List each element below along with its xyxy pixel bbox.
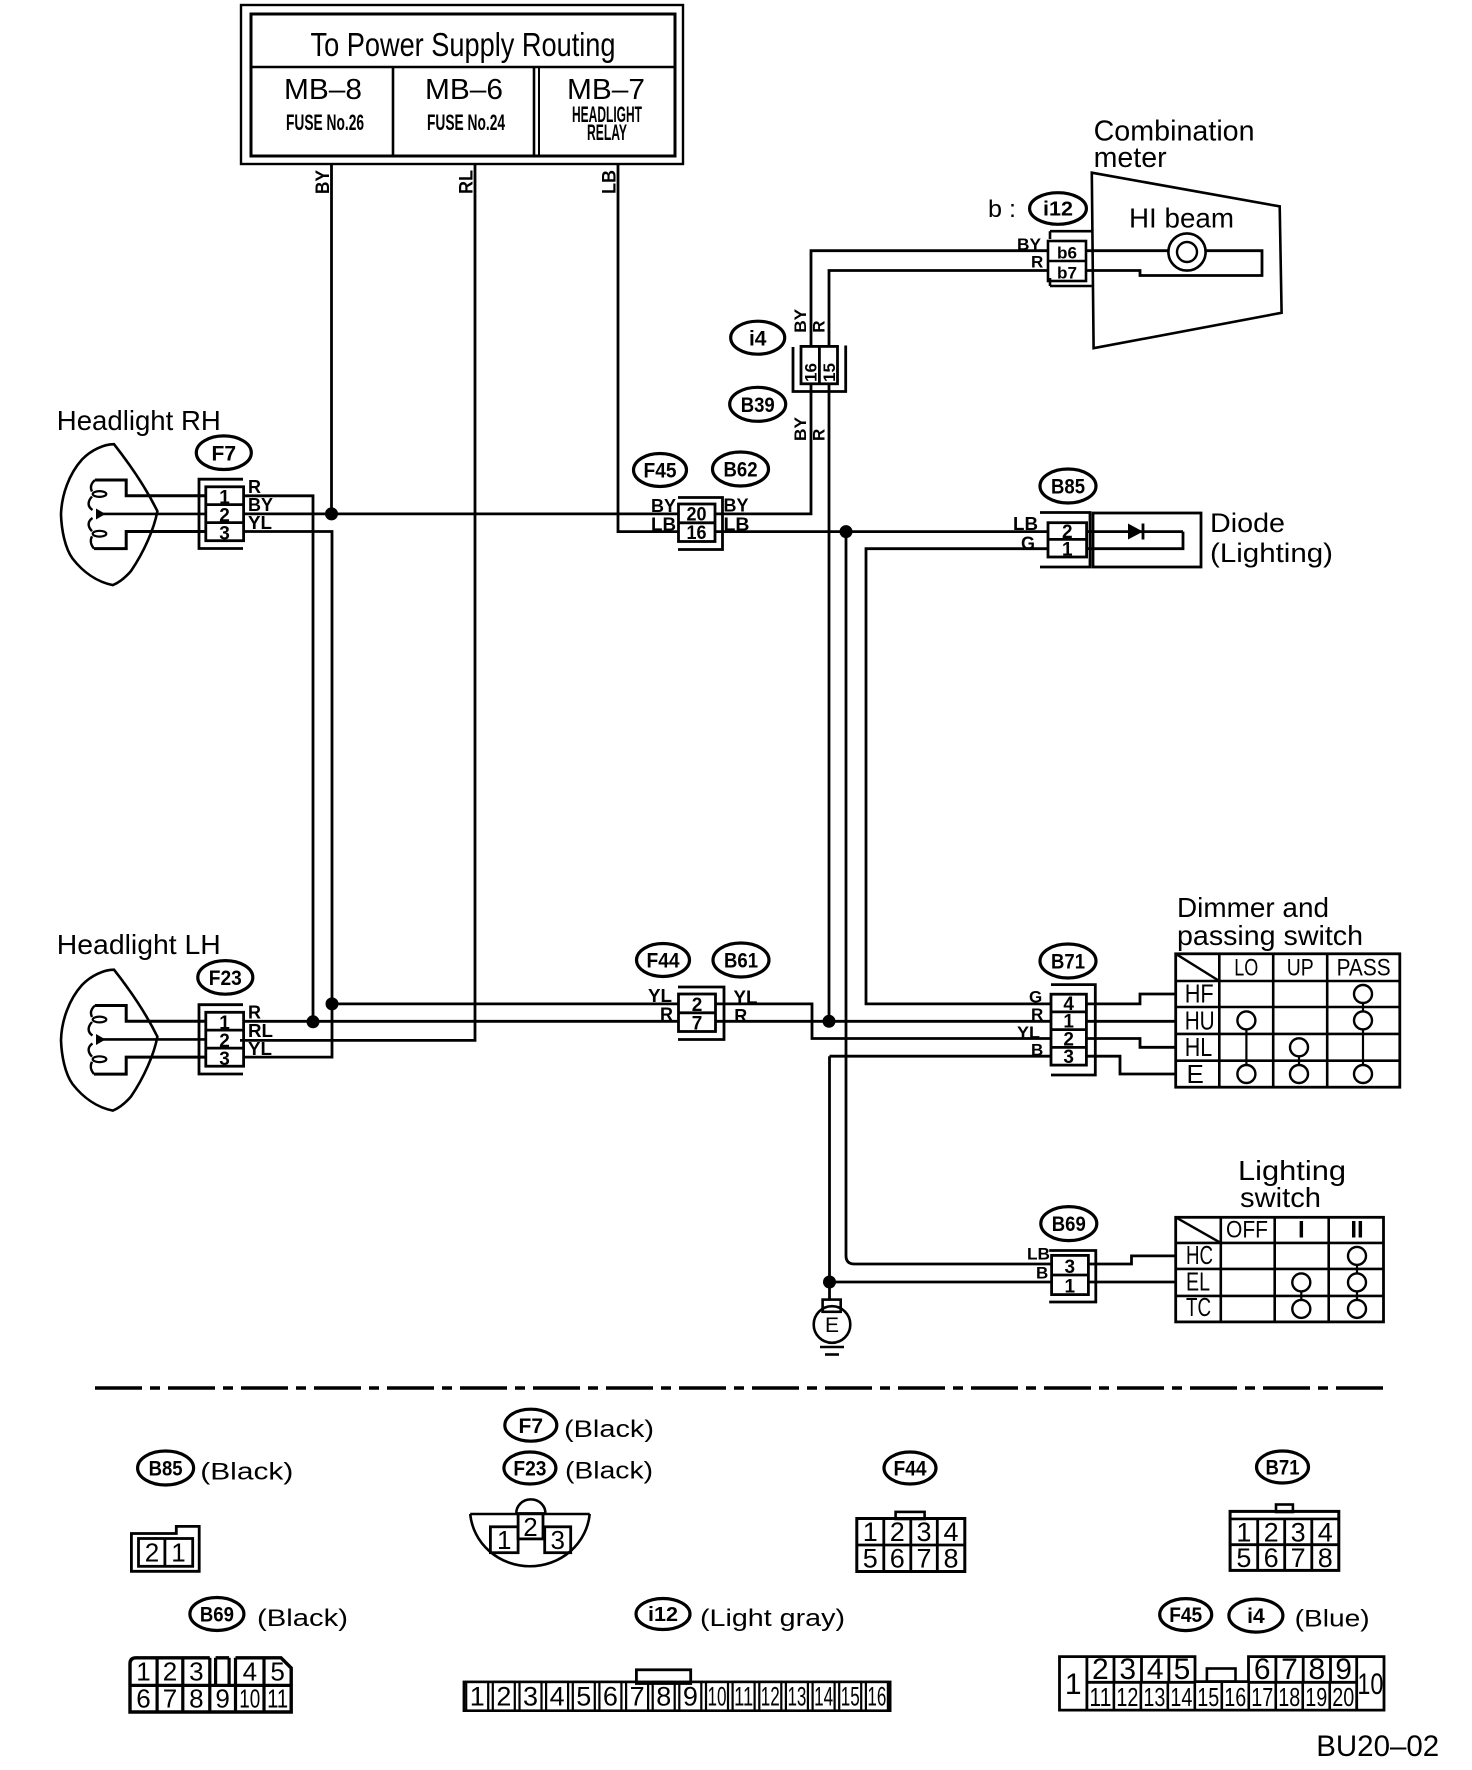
svg-text:5: 5 [1236,1543,1251,1573]
svg-text:14: 14 [1170,1682,1192,1712]
wire B69 pin 1 to table EL [1088,1281,1175,1284]
svg-text:5: 5 [863,1544,878,1574]
svg-text:b7: b7 [1057,264,1077,283]
svg-text:PASS: PASS [1337,955,1391,982]
svg-text:(Black): (Black) [200,1459,293,1486]
diode symbol [1087,530,1183,533]
connector F45/B62 [678,498,723,550]
svg-text:7: 7 [916,1544,931,1574]
connector F45 badge (bottom) [1160,1599,1212,1631]
dimmer contact links [1245,1020,1247,1074]
junction ground [823,1276,836,1289]
wire R from i4 pin 15 down to junction [828,384,831,1022]
svg-text:HL: HL [1185,1032,1213,1062]
svg-text:G: G [1029,987,1042,1006]
HI beam bulb [1168,233,1205,270]
svg-text:BU20–02: BU20–02 [1316,1730,1439,1763]
svg-text:B: B [1036,1264,1048,1283]
wire B down to ground junction [828,1056,831,1282]
connector B71 badge [1040,944,1096,978]
wire B to B69 pin 1 and ground [830,1281,1052,1284]
lighting switch table [1176,1217,1384,1322]
svg-text:MB–6: MB–6 [425,74,503,106]
svg-text:5: 5 [270,1657,284,1687]
svg-text:UP: UP [1287,955,1314,982]
connector B71 badge (bottom) [1257,1451,1309,1483]
svg-text:13: 13 [1143,1682,1165,1712]
svg-text:B61: B61 [724,950,758,973]
svg-text:HF: HF [1185,979,1214,1009]
svg-text:B39: B39 [741,394,775,417]
svg-text:R: R [1031,253,1043,272]
svg-text:B69: B69 [200,1604,234,1627]
wire LB from MB-7 to F45 pin 16 [618,164,679,532]
svg-text:II: II [1350,1216,1363,1243]
svg-text:R: R [660,1005,673,1025]
svg-text:20: 20 [1332,1682,1354,1712]
svg-text:Diode: Diode [1210,508,1285,538]
wire R from F7 pin 1 [244,496,313,1022]
svg-text:14: 14 [814,1682,833,1712]
svg-text:10: 10 [1357,1668,1383,1701]
svg-text:8: 8 [189,1684,203,1714]
svg-text:8: 8 [943,1544,958,1574]
svg-text:R: R [1031,1005,1043,1024]
svg-text:B69: B69 [1052,1213,1086,1236]
svg-text:R: R [248,1003,261,1023]
svg-text:1: 1 [1062,540,1073,561]
svg-text:b6: b6 [1057,244,1077,263]
svg-text:R: R [734,1006,747,1026]
svg-text:(Blue): (Blue) [1295,1606,1370,1633]
connector i12 badge (bottom) [636,1599,690,1630]
connector B85 face [131,1526,199,1571]
connector F45 badge [634,454,687,487]
svg-text:B71: B71 [1051,951,1085,974]
connector F44/B61 [678,987,724,1040]
svg-text:F23: F23 [513,1458,546,1481]
connector i12 face [464,1682,890,1711]
headlight RH lens outline [61,444,157,585]
svg-text:1: 1 [1065,1277,1076,1298]
svg-text:2: 2 [496,1682,511,1712]
svg-text:Headlight LH: Headlight LH [57,929,221,960]
svg-text:6: 6 [136,1684,150,1714]
wire B71 pin 3 to B wire [830,1055,1052,1058]
svg-text:HC: HC [1186,1240,1213,1270]
svg-text:11: 11 [267,1684,288,1714]
svg-text:3: 3 [523,1682,538,1712]
connector F44 badge [637,944,690,977]
svg-text:2: 2 [523,1512,537,1542]
connector B85 badge [1040,469,1096,503]
svg-text:7: 7 [630,1682,645,1712]
svg-text:TC: TC [1186,1292,1211,1322]
svg-text:E: E [1187,1059,1204,1089]
svg-text:3: 3 [550,1525,564,1555]
svg-text:F45: F45 [1169,1604,1202,1627]
svg-text:2: 2 [890,1517,905,1547]
svg-text:BY: BY [313,170,334,194]
power supply routing box [241,5,683,164]
svg-text:B62: B62 [724,459,758,482]
svg-text:I: I [1298,1216,1305,1243]
svg-text:9: 9 [683,1682,698,1712]
junction YL [326,997,339,1010]
svg-text:3: 3 [219,1049,230,1070]
connector F7/F23 face [470,1513,590,1516]
svg-text:R: R [810,429,829,441]
connector F44 badge (bottom) [884,1452,936,1484]
wire B69 pin 3 to table HC [1088,1256,1175,1264]
lighting switch contact links [1300,1282,1302,1309]
svg-text:6: 6 [1264,1543,1279,1573]
dimmer contacts [1354,985,1372,1003]
svg-text:YL: YL [1017,1023,1040,1042]
svg-text:passing switch: passing switch [1177,920,1363,951]
headlight LH lens outline [61,970,157,1111]
svg-text:(Black): (Black) [565,1458,653,1485]
diode (lighting) box [1093,513,1201,567]
svg-text:HI beam: HI beam [1129,203,1234,234]
svg-text:F7: F7 [519,1415,544,1438]
svg-text:3: 3 [189,1657,203,1687]
svg-text:i12: i12 [648,1604,678,1626]
svg-text:MB–8: MB–8 [284,74,362,106]
svg-text:F45: F45 [644,460,677,483]
svg-text:RL: RL [248,1021,273,1041]
svg-text:switch: switch [1240,1182,1321,1213]
junction BY [325,507,338,520]
connector B71 [1051,985,1095,1075]
svg-text:YL: YL [248,1039,272,1059]
svg-text:R: R [248,477,261,497]
svg-text:(Black): (Black) [257,1605,348,1632]
meter connector b6/b7 [1050,231,1092,239]
wire YL from F44 pin 2: dot to pin [332,1003,679,1006]
connector F7 badge (bottom) [505,1409,557,1441]
wire R from i4 pin 15 to meter b7 [829,271,1048,347]
connector F23 badge [198,961,253,995]
svg-text:B85: B85 [1051,476,1085,499]
svg-text:3: 3 [1065,1257,1076,1278]
connector B71 face [1230,1511,1339,1570]
svg-text:19: 19 [1305,1682,1327,1712]
wire b6 to HI beam bulb [1086,249,1168,252]
svg-text:FUSE No.24: FUSE No.24 [427,110,505,135]
svg-text:F44: F44 [647,950,680,973]
connector F45/i4 face [1060,1657,1385,1711]
svg-text:8: 8 [656,1682,671,1712]
svg-text:15: 15 [841,1682,860,1712]
connector F23 badge (bottom) [504,1452,556,1484]
connector B85 [1040,513,1090,568]
svg-text:8: 8 [1318,1543,1333,1573]
svg-text:(Black): (Black) [564,1416,654,1443]
wire BY from F7 pin 2 to F45 pin 20 [244,513,679,516]
svg-text:OFF: OFF [1226,1216,1268,1243]
svg-text:7: 7 [1291,1543,1306,1573]
wire BY from i4 pin 16 to meter b6 [811,251,1048,347]
junction LB [840,525,853,538]
svg-text:YL: YL [734,988,758,1008]
svg-text:i4: i4 [749,327,767,350]
svg-text:E: E [825,1314,839,1337]
wire RL from MB-6 to headlight LH pin 2 [240,164,475,1040]
svg-text:BY: BY [791,308,810,333]
svg-text:1: 1 [497,1525,511,1555]
svg-text:10: 10 [708,1682,727,1712]
svg-text:15: 15 [820,363,839,382]
svg-text:LB: LB [724,515,750,535]
svg-text:3: 3 [219,524,230,545]
svg-text:BY: BY [651,496,676,516]
connector F7 [199,479,243,548]
svg-text:Headlight RH: Headlight RH [57,405,221,436]
connector B69 badge [1041,1207,1097,1241]
svg-text:i12: i12 [1043,199,1073,221]
svg-text:5: 5 [576,1682,591,1712]
svg-text:1: 1 [863,1517,878,1547]
connector i4 badge [731,321,785,354]
svg-text:BY: BY [724,496,749,516]
svg-text:RELAY: RELAY [587,120,627,145]
connector B39 badge [730,387,786,421]
connector B69 badge 2 (bottom) [190,1598,244,1631]
svg-text:4: 4 [243,1657,257,1687]
wire BY from MB-8 [330,164,333,514]
wire B71 pin 4 to table HF [1086,994,1175,1004]
svg-text:7: 7 [163,1684,177,1714]
headlight LH bulb symbol [95,1006,206,1022]
svg-text:3: 3 [916,1517,931,1547]
connector B62 badge [713,452,769,486]
svg-text:(Light gray): (Light gray) [700,1605,845,1632]
svg-text:LB: LB [1027,1245,1050,1264]
svg-text:FUSE No.26: FUSE No.26 [286,110,364,135]
connector B61 badge [713,943,769,977]
svg-text:15: 15 [1197,1682,1219,1712]
wire BY from B62 to i4 pin 16 [715,384,811,514]
svg-text:16: 16 [1224,1682,1246,1712]
svg-text:12: 12 [1116,1682,1138,1712]
svg-text:17: 17 [1251,1682,1273,1712]
svg-text:F7: F7 [212,442,237,465]
lighting switch contacts [1348,1247,1366,1265]
connector F44 face [857,1519,965,1572]
ground symbol E [828,1282,831,1300]
svg-text:LO: LO [1234,955,1258,982]
connector F23 [199,1005,243,1074]
wire LB from B62 to B85 pin 2 [715,530,1048,533]
svg-text:1: 1 [470,1682,485,1712]
section separator line [95,1386,1390,1390]
svg-text:LB: LB [651,515,676,535]
svg-text:meter: meter [1094,142,1167,174]
svg-text:HU: HU [1185,1006,1215,1036]
svg-text:b :: b : [988,196,1016,223]
svg-text:G: G [1021,534,1035,554]
dimmer and passing switch table [1176,954,1400,1087]
wire LB down to B69 pin 3 [846,532,1052,1264]
svg-text:Dimmer and: Dimmer and [1177,892,1329,923]
svg-text:LB: LB [1013,514,1038,534]
svg-text:LB: LB [600,170,621,194]
svg-text:F44: F44 [894,1458,927,1481]
svg-text:11: 11 [734,1682,753,1712]
combination meter outline [1092,173,1282,349]
svg-text:B71: B71 [1266,1457,1300,1480]
svg-text:12: 12 [761,1682,780,1712]
connector B69 face [130,1658,291,1712]
wire YL from F7 pin 3 [244,532,332,1058]
svg-text:1: 1 [136,1657,150,1687]
wire G from B85 pin 1 to B71 pin 4 [866,549,1051,1004]
headlight RH bulb symbol [95,480,206,496]
svg-text:(Lighting): (Lighting) [1210,538,1333,568]
connector F7 badge [196,436,251,470]
svg-text:1: 1 [171,1538,185,1568]
svg-text:4: 4 [943,1517,958,1547]
svg-text:To Power Supply Routing: To Power Supply Routing [311,26,616,63]
svg-text:11: 11 [1089,1682,1111,1712]
svg-text:13: 13 [787,1682,806,1712]
wire B71 pin 2 to table HL [1086,1039,1175,1048]
svg-text:3: 3 [1063,1047,1074,1068]
svg-text:9: 9 [215,1684,229,1714]
wire R from F23 pin 1 to F44 pin 7 [244,1020,679,1023]
svg-text:YL: YL [248,513,272,533]
svg-text:B85: B85 [149,1458,183,1481]
svg-text:6: 6 [890,1544,905,1574]
svg-text:4: 4 [550,1682,565,1712]
svg-text:RL: RL [457,170,478,194]
svg-text:6: 6 [603,1682,618,1712]
svg-text:16: 16 [687,523,707,544]
svg-text:2: 2 [163,1657,177,1687]
connector B85 badge (bottom) [138,1451,194,1485]
wire B71 pin 3 to table E [1086,1056,1175,1074]
wire HI beam loop to b7 [1086,251,1262,276]
svg-text:BY: BY [1017,235,1042,254]
svg-text:10: 10 [239,1684,260,1714]
svg-text:7: 7 [692,1014,703,1035]
connector i4 badge (bottom) [1229,1599,1283,1632]
wire R from B61 to B71 pin 1 [716,1020,1052,1023]
svg-text:1: 1 [1065,1668,1082,1701]
wire YL from B61 to B71 pin 2 [716,1004,1052,1039]
svg-text:F23: F23 [209,967,242,990]
connector i4/B39 [793,346,846,392]
svg-text:16: 16 [867,1682,886,1712]
svg-text:BY: BY [791,416,810,441]
wire B71 pin 1 to table HU [1086,1020,1175,1023]
svg-text:16: 16 [802,363,821,382]
junction R [307,1015,320,1028]
svg-text:18: 18 [1278,1682,1300,1712]
svg-text:2: 2 [145,1538,159,1568]
svg-text:i4: i4 [1247,1605,1265,1628]
svg-text:BY: BY [248,495,273,515]
connector B69 [1049,1251,1096,1303]
junction R2 [823,1015,836,1028]
